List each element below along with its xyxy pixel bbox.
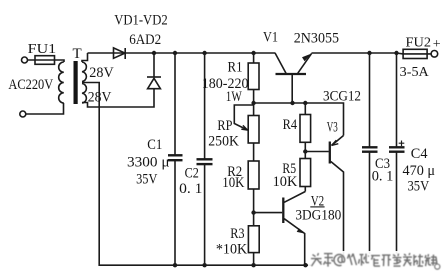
svg-text:T: T	[73, 46, 82, 62]
svg-text:R3: R3	[230, 226, 244, 242]
svg-text:28V: 28V	[89, 65, 114, 81]
svg-text:VD1-VD2: VD1-VD2	[114, 12, 168, 28]
svg-text:C4: C4	[411, 146, 428, 162]
svg-text:250K: 250K	[208, 133, 239, 149]
svg-text:+: +	[433, 37, 441, 52]
svg-text:35V: 35V	[408, 178, 430, 194]
svg-text:6AD2: 6AD2	[129, 32, 161, 48]
svg-text:R1: R1	[228, 59, 243, 75]
svg-text:3CG12: 3CG12	[323, 88, 361, 104]
svg-text:R4: R4	[283, 117, 298, 133]
svg-text:FU2: FU2	[406, 36, 432, 51]
svg-text:0. 1: 0. 1	[179, 181, 202, 197]
svg-text:RP: RP	[217, 118, 232, 134]
svg-text:2N3055: 2N3055	[294, 30, 339, 46]
svg-text:V1: V1	[263, 30, 278, 46]
svg-text:10K: 10K	[222, 175, 244, 191]
svg-text:3-5A: 3-5A	[400, 65, 430, 80]
svg-text:0. 1: 0. 1	[372, 169, 394, 185]
svg-text:35V: 35V	[136, 172, 157, 188]
svg-text:10K: 10K	[273, 174, 298, 190]
svg-text:470 μ: 470 μ	[403, 163, 436, 179]
svg-text:C1: C1	[147, 137, 162, 153]
svg-text:28V: 28V	[88, 90, 112, 106]
svg-text:3300 μ: 3300 μ	[127, 154, 170, 170]
svg-text:AC220V: AC220V	[8, 77, 53, 93]
svg-text:V3: V3	[327, 120, 338, 136]
svg-text:1W: 1W	[226, 89, 243, 105]
svg-text:FU1: FU1	[28, 41, 57, 56]
svg-text:*10K: *10K	[216, 242, 247, 258]
svg-text:3DG180: 3DG180	[295, 207, 341, 223]
svg-text:C2: C2	[185, 166, 199, 182]
